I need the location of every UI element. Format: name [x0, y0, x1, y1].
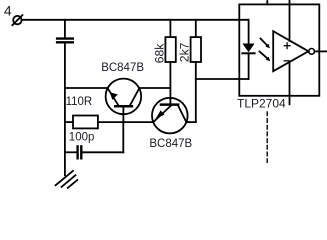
minus	[284, 60, 289, 62]
pin GND	[289, 62, 291, 105]
output circle	[309, 49, 315, 55]
wire interconnect LED cathode	[196, 78, 249, 80]
wire Q2 collector to 2k7	[186, 121, 196, 123]
transistor Q2 BC847B	[152, 98, 188, 134]
capacitor C1 plates	[57, 37, 73, 39]
wire LED drop	[248, 20, 250, 44]
resistor 2k7	[191, 20, 201, 122]
svg-text:68k: 68k	[153, 43, 167, 64]
svg-text:TLP2704: TLP2704	[237, 97, 286, 111]
svg-text:100p: 100p	[69, 132, 95, 144]
pin stub top	[266, 1, 268, 4]
LED anode triangle	[242, 44, 254, 53]
plus	[284, 43, 290, 49]
svg-text:110R: 110R	[66, 96, 93, 108]
svg-text:BC847B: BC847B	[149, 138, 192, 150]
svg-text:BC847B: BC847B	[101, 62, 144, 74]
svg-text:2k7: 2k7	[178, 42, 192, 62]
wire Q1 emitter row	[65, 87, 108, 89]
op-amp U1	[273, 31, 308, 71]
capacitor C1 top lead	[64, 20, 66, 38]
resistor 110R	[65, 116, 153, 129]
opto box TLP2704	[239, 4, 319, 95]
transistor Q1 BC847B	[106, 79, 142, 122]
ground	[56, 171, 78, 188]
capacitor 100p	[65, 122, 123, 158]
svg-text:4: 4	[4, 3, 12, 19]
pin Vcc	[289, 0, 291, 41]
light arrow 1	[261, 39, 271, 49]
resistor 68k	[165, 20, 175, 105]
light arrow 2	[260, 52, 271, 62]
LED cathode bar	[242, 52, 254, 54]
dashed line	[266, 112, 268, 162]
wire output	[315, 50, 327, 52]
terminal pin circle	[13, 16, 21, 24]
wire left rail down	[64, 43, 66, 175]
wire Q1 collector row	[139, 87, 170, 89]
terminal slash	[12, 15, 22, 25]
wire main top rail	[22, 19, 249, 21]
